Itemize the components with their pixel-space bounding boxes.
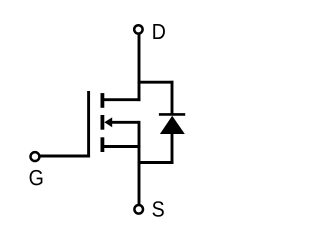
wire: diode cathode vertical [171,81,174,115]
label G [30,170,43,185]
body-diode arrow head (points at body bar) [104,117,112,127]
MOSFET Q1 drain channel bar [101,93,105,108]
wire: drain vertical from terminal D down to drain stub corner [138,34,141,101]
MOSFET Q1 body channel bar [101,115,105,130]
wire: drain horizontal over to diode cathode branch [138,81,174,84]
label D [153,24,165,39]
wire: gate horizontal from terminal G to gate line [40,155,90,158]
MOSFET Q1 gate line [87,91,90,157]
terminal D (circle) [134,25,142,33]
wire: diode anode vertical [171,133,174,164]
diode D1 anode triangle [160,116,185,134]
label S [152,201,163,216]
diode D1 cathode bar [159,113,185,116]
wire: body horizontal to source node [110,121,139,124]
terminal G (circle) [31,152,40,161]
MOSFET Q1 source channel bar [101,137,105,152]
wire: drain stub from MOSFET drain bar [103,98,140,101]
wire: source vertical (body node down to terminal S) [138,121,141,205]
wire: source stub from MOSFET source bar [103,145,140,148]
terminal S (circle) [134,205,143,214]
wire: source horizontal over to diode anode branch [138,161,174,164]
